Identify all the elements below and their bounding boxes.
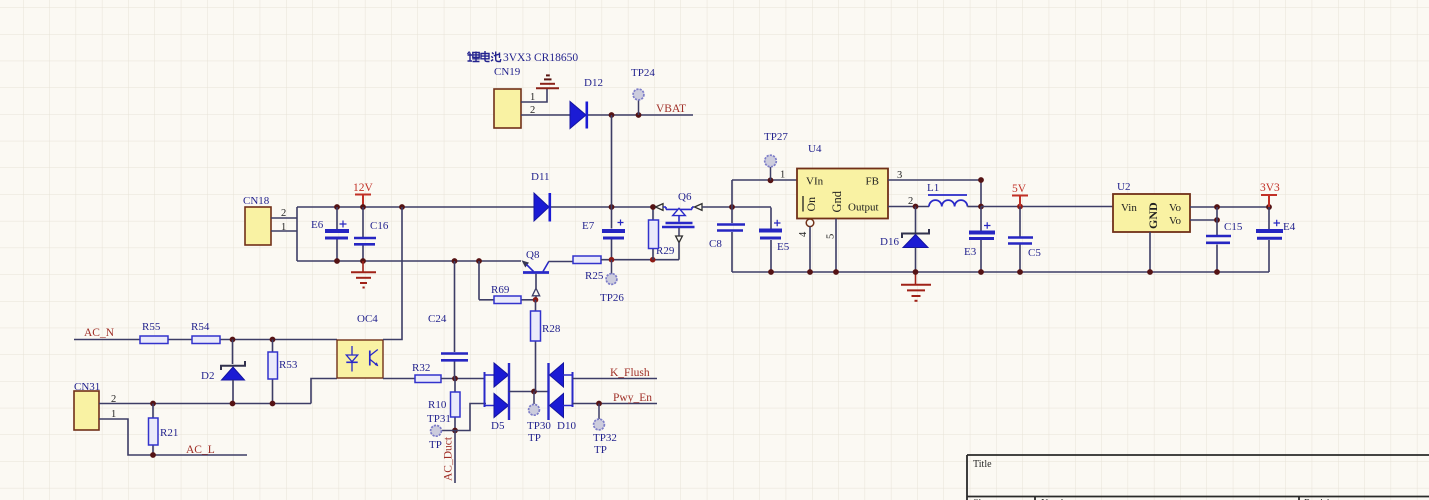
junction — [360, 204, 366, 210]
svg-text:R32: R32 — [412, 362, 430, 374]
svg-text:L1: L1 — [927, 182, 939, 194]
junction — [913, 269, 919, 275]
connector CN18 — [243, 195, 286, 245]
resistor R28 — [531, 300, 561, 392]
svg-text:E7: E7 — [582, 220, 595, 232]
wire pin5 to gnd rail — [835, 219, 837, 273]
svg-text:Q8: Q8 — [526, 249, 540, 261]
regulator U2 — [1113, 181, 1190, 232]
svg-text:Vo: Vo — [1169, 202, 1182, 214]
wire VBAT vertical — [611, 115, 613, 260]
svg-text:D10: D10 — [557, 420, 576, 432]
wire OC4 emitter to R32 — [383, 378, 415, 380]
resistor R55 — [140, 321, 168, 344]
svg-text:OC4: OC4 — [357, 313, 378, 325]
resistor R29 — [649, 207, 675, 260]
svg-text:R21: R21 — [160, 427, 178, 439]
junction — [1147, 269, 1153, 275]
resistor R21 — [149, 404, 179, 456]
svg-text:C5: C5 — [1028, 247, 1041, 259]
test point TP24 — [631, 67, 655, 115]
junction — [476, 258, 482, 264]
diode pair D5 — [485, 363, 510, 432]
svg-text:AC_Duct: AC_Duct — [443, 436, 455, 481]
junction — [1214, 269, 1220, 275]
junction — [978, 177, 984, 183]
junction — [230, 401, 236, 407]
wire pin2 CN19 — [521, 114, 570, 116]
inductor L1 — [927, 182, 981, 207]
wire CN31 pin2 row — [99, 403, 311, 405]
junction — [596, 401, 602, 407]
svg-text:C15: C15 — [1224, 221, 1243, 233]
wire CN18 pin2 — [271, 217, 297, 219]
junction — [1214, 217, 1220, 223]
svg-text:R10: R10 — [428, 399, 447, 411]
capacitor C5 — [1008, 207, 1041, 273]
capacitor E3 — [964, 207, 995, 273]
wire U2 gnd — [1149, 232, 1151, 272]
svg-text:TP26: TP26 — [600, 292, 624, 304]
power port 12V — [353, 182, 374, 207]
junction — [768, 177, 774, 183]
svg-text:D5: D5 — [491, 420, 505, 432]
svg-text:FB: FB — [866, 176, 879, 188]
resistor R53 — [268, 340, 298, 404]
svg-text:D11: D11 — [531, 171, 550, 183]
junction — [729, 204, 735, 210]
svg-text:3VX3 CR18650: 3VX3 CR18650 — [503, 52, 578, 64]
junction — [913, 204, 919, 210]
svg-text:5V: 5V — [1012, 183, 1027, 195]
junction — [270, 401, 276, 407]
resistor R54 — [191, 321, 220, 344]
svg-text:TP32: TP32 — [593, 432, 617, 444]
wire Q8 collector to R25 — [549, 261, 574, 263]
svg-text:12V: 12V — [353, 182, 374, 194]
svg-text:TP: TP — [594, 444, 607, 456]
resistor R69 — [479, 261, 536, 304]
svg-text:3V3: 3V3 — [1260, 182, 1280, 194]
svg-text:D12: D12 — [584, 77, 603, 89]
wire bottom rail — [297, 260, 521, 262]
svg-text:Vo: Vo — [1169, 215, 1182, 227]
wire FB — [888, 180, 981, 207]
power port 5V — [1012, 183, 1028, 207]
mosfet Q6 — [656, 191, 703, 260]
diode D12 — [570, 77, 603, 129]
title block — [967, 455, 1429, 500]
junction — [636, 112, 642, 118]
junction — [334, 204, 340, 210]
svg-text:D16: D16 — [880, 236, 899, 248]
svg-text:U4: U4 — [808, 143, 822, 155]
capacitor C16 — [354, 207, 389, 261]
connector CN31 — [74, 381, 116, 430]
wire OC4 collector — [383, 207, 402, 340]
svg-text:D2: D2 — [201, 370, 214, 382]
wire R32 to D5 — [441, 378, 485, 380]
junction — [1017, 204, 1023, 210]
wire pin4 to gnd rail — [809, 227, 811, 272]
wire AC_N — [74, 339, 337, 341]
svg-text:R28: R28 — [542, 323, 561, 335]
svg-text:VBAT: VBAT — [656, 103, 686, 115]
transistor Q8 — [522, 249, 550, 300]
junction — [531, 389, 537, 395]
junction — [609, 204, 615, 210]
wire CN31 pin1 to AC_L — [99, 419, 247, 455]
svg-text:E4: E4 — [1283, 221, 1296, 233]
wire CN31 row to OC4 — [311, 379, 337, 404]
svg-text:E6: E6 — [311, 219, 324, 231]
junction — [270, 337, 276, 343]
wire VIn rail — [732, 179, 797, 181]
junction — [399, 204, 405, 210]
wire AC_Duct — [454, 431, 456, 484]
svg-text:R54: R54 — [191, 321, 210, 333]
svg-text:C8: C8 — [709, 238, 722, 250]
resistor R10 — [428, 379, 460, 431]
wire K_Flush — [573, 378, 658, 380]
capacitor E4 — [1256, 207, 1296, 272]
diode D16 — [880, 207, 929, 273]
capacitor E7 — [582, 220, 625, 239]
svg-text:U2: U2 — [1117, 181, 1130, 193]
junction — [609, 257, 615, 263]
svg-text:VIn: VIn — [806, 176, 824, 188]
junction — [230, 337, 236, 343]
junction — [533, 297, 539, 303]
svg-text:C24: C24 — [428, 313, 447, 325]
diode D11 — [531, 171, 550, 222]
svg-text:Pwy_En: Pwy_En — [613, 392, 652, 404]
wire Pwy_En — [573, 403, 658, 405]
svg-text:Q6: Q6 — [678, 191, 692, 203]
wire D5 to D10 — [509, 391, 549, 393]
svg-text:R25: R25 — [585, 270, 604, 282]
junction — [1214, 204, 1220, 210]
connector CN19 — [494, 66, 535, 128]
capacitor E6 — [311, 207, 349, 261]
svg-text:4: 4 — [798, 231, 809, 237]
wire Output — [888, 206, 929, 208]
capacitor E5 — [759, 208, 790, 273]
svg-text:5: 5 — [826, 234, 837, 239]
wire VBAT — [588, 114, 693, 116]
junction — [650, 257, 656, 263]
svg-text:TP: TP — [429, 439, 442, 451]
junction — [1017, 269, 1023, 275]
optocoupler OC4 — [337, 313, 383, 378]
wire Vo1 — [1190, 206, 1269, 208]
test point TP32 — [593, 404, 617, 457]
svg-text:2: 2 — [908, 196, 913, 207]
wire CN18 pin1 — [271, 230, 297, 232]
wire ground rail — [732, 271, 1269, 273]
svg-text:C16: C16 — [370, 220, 389, 232]
svg-text:Gnd: Gnd — [830, 190, 844, 212]
capacitor C24 — [428, 261, 468, 379]
svg-text:TP: TP — [528, 432, 541, 444]
regulator U4 — [780, 143, 913, 239]
zener D2 — [201, 340, 245, 404]
ground (12V filter) — [351, 261, 376, 288]
label 锂电池 3VX3 CR18650 — [468, 51, 579, 64]
test point TP26 — [600, 260, 624, 304]
junction — [360, 258, 366, 264]
junction — [768, 269, 774, 275]
svg-text:CN19: CN19 — [494, 66, 521, 78]
wire Vo2 — [1190, 219, 1217, 221]
svg-text:GND: GND — [1146, 202, 1160, 229]
resistor R32 — [412, 362, 441, 383]
test point TP27 — [764, 131, 788, 180]
pin 4 bubble — [806, 219, 814, 227]
wire C8 vertical — [731, 180, 733, 272]
svg-text:R53: R53 — [279, 359, 298, 371]
svg-text:TP30: TP30 — [527, 420, 551, 432]
svg-text:TP27: TP27 — [764, 131, 788, 143]
junction — [978, 269, 984, 275]
junction — [609, 112, 615, 118]
junction — [452, 258, 458, 264]
svg-text:Vin: Vin — [1121, 202, 1137, 214]
svg-text:R55: R55 — [142, 321, 161, 333]
svg-text:TP31: TP31 — [427, 413, 451, 425]
svg-text:K_Flush: K_Flush — [610, 367, 650, 379]
junction — [150, 401, 156, 407]
wire pin1 CN19 — [521, 89, 547, 102]
svg-text:1: 1 — [780, 170, 785, 181]
svg-text:AC_L: AC_L — [186, 444, 215, 456]
junction — [334, 258, 340, 264]
ground (buck output) — [901, 272, 931, 301]
junction — [150, 452, 156, 458]
diode pair D10 — [549, 363, 577, 432]
test point TP30 — [527, 392, 551, 445]
junction — [650, 204, 656, 210]
wire jog to D5 lower — [455, 404, 486, 431]
capacitor C15 — [1206, 207, 1243, 272]
svg-text:CN18: CN18 — [243, 195, 270, 207]
svg-text:On: On — [804, 197, 818, 212]
junction — [1266, 204, 1272, 210]
junction — [833, 269, 839, 275]
svg-text:Title: Title — [973, 459, 992, 470]
ground (battery, bars up) — [536, 75, 559, 88]
wire 5V rail — [981, 206, 1113, 208]
svg-text:E3: E3 — [964, 246, 977, 258]
wire 12V rail (D11 row) — [297, 206, 656, 208]
svg-text:R69: R69 — [491, 284, 510, 296]
svg-text:AC_N: AC_N — [84, 327, 115, 339]
junction — [452, 428, 458, 434]
svg-text:Output: Output — [848, 202, 879, 214]
power port 3V3 — [1260, 182, 1280, 207]
junction — [452, 376, 458, 382]
wire CN18 vertical — [296, 207, 298, 261]
wire R25 to node — [601, 259, 679, 261]
junction — [978, 204, 984, 210]
test point TP31 — [427, 413, 455, 451]
svg-text:E5: E5 — [777, 241, 790, 253]
capacitor C8 — [709, 225, 745, 251]
wire Q6 drain to C8 node — [702, 206, 771, 208]
resistor R25 — [573, 256, 604, 282]
svg-text:TP24: TP24 — [631, 67, 655, 79]
junction — [807, 269, 813, 275]
